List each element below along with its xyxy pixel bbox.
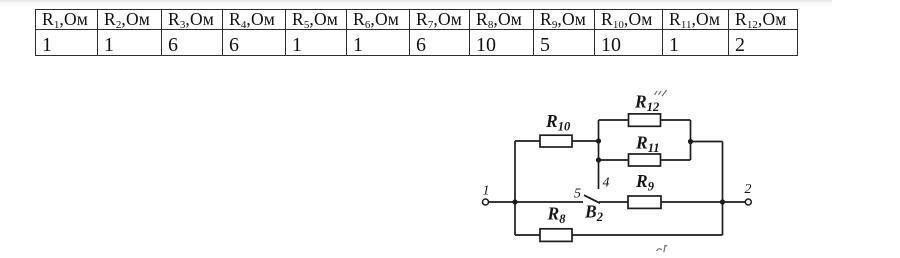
svg-text:R8: R8	[547, 204, 567, 227]
svg-text:2: 2	[745, 182, 752, 197]
svg-text:R12: R12	[634, 92, 659, 115]
svg-text:R9: R9	[635, 171, 655, 194]
svg-text:В2: В2	[584, 202, 603, 225]
svg-text:4: 4	[603, 176, 610, 191]
svg-text:1: 1	[483, 184, 490, 199]
svg-text:R11: R11	[635, 133, 660, 156]
svg-text:R10: R10	[545, 111, 571, 134]
svg-text:5: 5	[574, 187, 581, 202]
